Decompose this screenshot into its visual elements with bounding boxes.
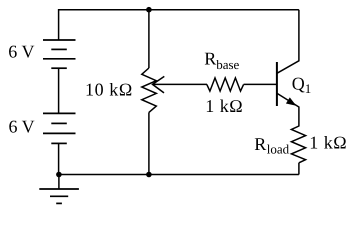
svg-text:R: R — [204, 49, 216, 69]
svg-text:1 kΩ: 1 kΩ — [309, 133, 347, 153]
svg-text:10 kΩ: 10 kΩ — [85, 79, 133, 99]
svg-text:base: base — [216, 57, 239, 72]
svg-text:6 V: 6 V — [9, 116, 35, 136]
svg-text:6 V: 6 V — [8, 42, 34, 62]
svg-text:1 kΩ: 1 kΩ — [205, 96, 243, 116]
svg-text:R: R — [254, 134, 266, 154]
svg-text:1: 1 — [305, 81, 312, 96]
svg-text:load: load — [267, 142, 290, 157]
svg-text:Q: Q — [292, 74, 305, 94]
